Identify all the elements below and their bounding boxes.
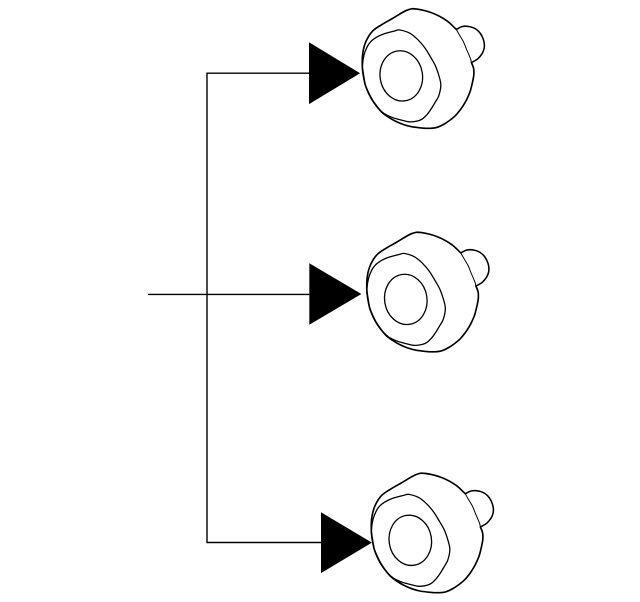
arrow 1 [309, 42, 360, 104]
knob 1 [362, 9, 484, 129]
arrow 2 [309, 263, 361, 325]
knob 3 [371, 473, 493, 593]
wire middle branch [148, 293, 309, 295]
wire vertical trunk [206, 73, 208, 543]
knob 2 [367, 232, 489, 352]
wire top branch [206, 72, 309, 74]
wire bottom branch [206, 542, 321, 544]
arrow 3 [321, 512, 372, 573]
